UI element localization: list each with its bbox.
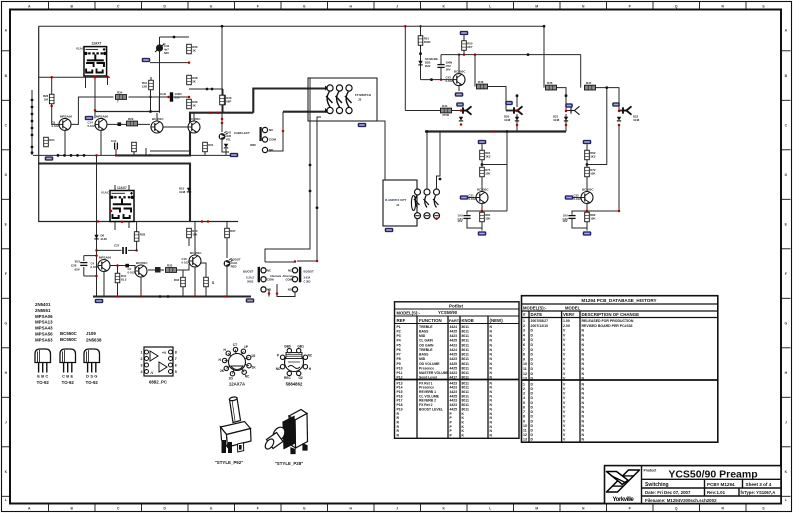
- node net GND1: [478, 232, 486, 236]
- junction: [167, 96, 170, 99]
- resistor R39: [187, 99, 198, 109]
- junction: [309, 190, 312, 193]
- svg-text:1K: 1K: [252, 365, 257, 369]
- svg-text:+V: +V: [162, 351, 167, 355]
- wire led dn: [226, 267, 228, 297]
- frame tick: [2, 248, 11, 250]
- relay switch: [433, 196, 439, 208]
- svg-text:1K2: 1K2: [485, 155, 491, 159]
- frame tick: [513, 2, 515, 10]
- svg-text:13: 13: [523, 377, 527, 381]
- wire send row A: [405, 110, 440, 112]
- svg-text:8011: 8011: [462, 376, 469, 380]
- connector J7 fx: [571, 106, 580, 114]
- svg-text:8011: 8011: [462, 329, 469, 333]
- svg-text:BD2: BD2: [425, 60, 431, 64]
- svg-text:8: 8: [523, 415, 525, 419]
- node net OD2: [142, 58, 150, 62]
- svg-text:L: L: [489, 506, 491, 510]
- junction: [167, 295, 170, 298]
- wire Q1 out: [71, 97, 113, 124]
- svg-text:10K: 10K: [192, 233, 198, 237]
- wire R51 col: [420, 26, 422, 79]
- frame tick: [2, 99, 11, 101]
- node net IN2: [565, 196, 573, 200]
- wire c28 leads2: [174, 96, 190, 98]
- wire buf1 base: [468, 197, 476, 199]
- capacitor C12: [111, 139, 117, 150]
- svg-text:TO-92: TO-92: [62, 380, 75, 385]
- junction: [206, 88, 209, 91]
- marker: [325, 86, 328, 91]
- resistor R62: [585, 150, 596, 160]
- resistor R81: [480, 212, 492, 222]
- wire buf2 riser: [587, 164, 607, 166]
- svg-text:2: 2: [523, 387, 525, 391]
- logo Yorkville: [607, 470, 640, 492]
- frame tick: [466, 2, 468, 10]
- frame tick: [781, 248, 791, 250]
- resistor R35: [204, 277, 209, 287]
- wire V1A pin stub: [85, 77, 87, 88]
- wire r20 stub: [133, 152, 135, 155]
- svg-text:10: 10: [523, 424, 527, 428]
- wire q7 em dn: [194, 275, 196, 297]
- table M1294 PCB_DATABASE_HISTORY: [522, 296, 718, 443]
- svg-text:4: 4: [523, 396, 525, 400]
- frame tick: [781, 198, 791, 200]
- wire fx1 up: [516, 96, 518, 107]
- frame tick: [652, 504, 654, 512]
- connector bar: [260, 127, 262, 141]
- wire c52 dn: [440, 67, 442, 79]
- wire r32 up: [182, 270, 184, 277]
- svg-text:YCS50/90 Preamp: YCS50/90 Preamp: [668, 469, 757, 481]
- junction: [211, 88, 214, 91]
- wire r35 dn: [205, 287, 207, 297]
- wire buf1 cap gnd: [467, 218, 482, 228]
- wire row89: [189, 88, 223, 90]
- wire j4 up1: [426, 132, 428, 190]
- resistor R28: [134, 232, 145, 242]
- wire net row tail: [96, 155, 98, 221]
- svg-text:C12: C12: [111, 139, 117, 143]
- svg-text:8011: 8011: [462, 353, 469, 357]
- svg-text:G: G: [303, 506, 306, 510]
- svg-text:VER#: VER#: [563, 312, 575, 317]
- transistor Q4: [188, 117, 201, 133]
- svg-text:MID: MID: [419, 334, 426, 338]
- title block: [605, 466, 782, 504]
- wire Q2 base col: [94, 77, 96, 118]
- junction: [31, 146, 34, 149]
- wire base row: [421, 79, 454, 81]
- transistor Q2: [88, 114, 109, 130]
- wire buf1 emit: [481, 204, 483, 212]
- pin J4-4: [415, 213, 421, 219]
- svg-text:12: 12: [523, 372, 527, 376]
- wire q6-q7 row: [148, 269, 164, 271]
- svg-text:Alternate: Alternate: [283, 274, 295, 278]
- svg-text:BC550C: BC550C: [189, 117, 201, 121]
- node net D1: [457, 103, 464, 107]
- svg-text:7: 7: [523, 348, 525, 352]
- wire q5 out: [111, 266, 136, 272]
- wire R46 down: [222, 105, 224, 113]
- marker: [325, 108, 328, 113]
- junction: [481, 210, 484, 213]
- svg-text:4425: 4425: [450, 366, 458, 370]
- svg-text:MPSA06: MPSA06: [96, 114, 108, 118]
- junction: [149, 154, 152, 157]
- svg-text:MPSA06: MPSA06: [99, 256, 111, 260]
- svg-text:1: 1: [523, 382, 525, 386]
- wire V1B pin stub: [114, 222, 116, 231]
- junction: [586, 210, 589, 213]
- svg-text:0-102: 0-102: [91, 265, 99, 269]
- transistor Q5: [91, 256, 112, 272]
- svg-text:P10: P10: [397, 366, 403, 370]
- svg-text:11: 11: [523, 429, 527, 433]
- svg-text:P9: P9: [397, 362, 401, 366]
- node net FSW: [358, 123, 366, 127]
- svg-text:3600: 3600: [250, 143, 256, 147]
- pin J3-2: [336, 85, 342, 91]
- svg-text:BC550C: BC550C: [454, 70, 466, 74]
- svg-text:16V: 16V: [446, 67, 451, 71]
- junction: [435, 217, 438, 220]
- svg-text:13: 13: [523, 438, 527, 442]
- wire r37 dn: [226, 238, 228, 258]
- wire fx2 row: [557, 88, 566, 111]
- junction: [110, 210, 113, 213]
- potentiometer STYLE_P92: [221, 396, 252, 447]
- connector J5 send: [463, 106, 472, 114]
- wire Q2-Q3 link: [107, 123, 150, 125]
- junction: [221, 25, 224, 28]
- junction: [194, 295, 197, 298]
- svg-text:P5: P5: [397, 343, 401, 347]
- frame tick: [187, 2, 189, 10]
- frame tick: [141, 504, 143, 512]
- svg-text:475R: 475R: [442, 113, 450, 117]
- junction: [83, 154, 86, 157]
- svg-text:L: L: [785, 498, 787, 502]
- junction: [106, 76, 109, 79]
- svg-text:8011: 8011: [462, 357, 469, 361]
- relay switch: [424, 196, 430, 208]
- diode D5 4148: [187, 188, 191, 192]
- svg-text:J: J: [396, 4, 398, 8]
- junction: [159, 295, 162, 298]
- table History text: [523, 298, 657, 442]
- resistor R24: [44, 137, 55, 147]
- junction: [149, 110, 152, 113]
- node net BUF2: [583, 140, 591, 144]
- svg-text:5: 5: [523, 338, 525, 342]
- diode D19: [459, 117, 463, 121]
- junction: [618, 124, 621, 127]
- wire q6 emitter: [140, 277, 142, 297]
- svg-text:B: B: [66, 374, 69, 379]
- svg-text:4423: 4423: [450, 399, 458, 403]
- svg-text:2007/12/10: 2007/12/10: [531, 324, 549, 328]
- junction: [282, 130, 285, 133]
- svg-text:12: 12: [523, 433, 527, 437]
- wire buf1 chain: [481, 144, 483, 192]
- svg-text:4: 4: [523, 333, 525, 337]
- frame tick: [373, 504, 375, 512]
- frame tick: [745, 2, 747, 10]
- svg-text:REVERB 2: REVERB 2: [419, 399, 436, 403]
- wire c26 loop l: [83, 256, 85, 261]
- wire fx1 row: [488, 87, 506, 111]
- svg-text:8011: 8011: [462, 343, 469, 347]
- svg-text:S: S: [90, 374, 93, 379]
- svg-text:6: 6: [175, 363, 177, 367]
- svg-text:12AX7: 12AX7: [92, 42, 102, 46]
- svg-text:MPSA56: MPSA56: [35, 332, 53, 337]
- svg-text:8011: 8011: [462, 371, 469, 375]
- connector NC/COM/ND: [262, 127, 274, 132]
- wire fsw B drop: [268, 112, 283, 151]
- transistor Q3: [151, 117, 164, 133]
- svg-text:560K: 560K: [424, 40, 432, 44]
- wire R26 col: [51, 77, 53, 106]
- svg-text:RED: RED: [231, 264, 237, 268]
- wire buf1 riser: [482, 164, 507, 166]
- wire r35 up: [201, 263, 206, 277]
- wire V1A pin stub3: [107, 76, 109, 85]
- svg-text:BASS: BASS: [419, 353, 429, 357]
- svg-text:8: 8: [523, 353, 525, 357]
- svg-text:GB1: GB1: [297, 344, 304, 348]
- wire R46 col: [222, 89, 224, 95]
- wire stub146: [145, 148, 147, 155]
- table Potlist: [395, 302, 520, 439]
- svg-text:M: M: [535, 4, 538, 8]
- frame tick: [781, 297, 791, 299]
- node net D2: [506, 101, 513, 105]
- svg-text:P7: P7: [397, 353, 401, 357]
- junction: [95, 275, 98, 278]
- wire fx3 row: [596, 88, 619, 111]
- frame tick: [48, 504, 50, 512]
- junction: [543, 25, 546, 28]
- svg-text:Switching: Switching: [645, 482, 669, 488]
- component coupling C15: [118, 122, 122, 126]
- junction: [70, 154, 73, 157]
- svg-text:P4: P4: [397, 339, 401, 343]
- wire plate row: [129, 96, 169, 98]
- pin J3-1: [327, 85, 333, 91]
- svg-text:C1B: C1B: [160, 92, 166, 96]
- frame tick: [2, 347, 11, 349]
- wire q7 emitter: [194, 267, 196, 275]
- frame tick: [781, 495, 791, 497]
- svg-text:1.00: 1.00: [563, 319, 570, 323]
- svg-text:63V: 63V: [164, 51, 169, 55]
- svg-text:G: G: [4, 321, 7, 325]
- svg-text:BOOST LEVEL: BOOST LEVEL: [419, 407, 443, 411]
- svg-text:CL GAIN: CL GAIN: [419, 339, 433, 343]
- svg-text:4425: 4425: [450, 329, 458, 333]
- junction: [516, 124, 519, 127]
- svg-text:Q: Q: [675, 4, 678, 8]
- svg-text:1G: 1G: [251, 354, 256, 358]
- frame tick: [781, 50, 791, 52]
- svg-text:C27: C27: [114, 244, 120, 248]
- svg-text:BC550C: BC550C: [477, 188, 489, 192]
- svg-text:Presence: Presence: [419, 366, 434, 370]
- resistor R33: [166, 264, 177, 273]
- connector J8 fx: [623, 106, 632, 114]
- svg-text:SCH4148L: SCH4148L: [425, 57, 439, 61]
- switch pole: [326, 92, 333, 108]
- svg-text:4148: 4148: [553, 118, 560, 122]
- svg-text:R32: R32: [174, 278, 180, 282]
- LED CH1 LED: [219, 131, 232, 142]
- junction: [316, 206, 319, 209]
- resistor R36: [187, 44, 198, 54]
- resistor R50: [462, 41, 473, 51]
- wire buf2 chain: [586, 144, 588, 192]
- svg-text:BC550C: BC550C: [136, 261, 148, 265]
- relay switch: [414, 196, 420, 208]
- svg-text:8011: 8011: [462, 381, 469, 385]
- svg-text:fsType: YS1067,A: fsType: YS1067,A: [741, 490, 776, 495]
- svg-text:4423: 4423: [450, 334, 458, 338]
- svg-text:2N5638: 2N5638: [86, 338, 102, 343]
- svg-text:11: 11: [523, 367, 527, 371]
- node net IN1: [460, 196, 468, 200]
- svg-text:T: T: [117, 100, 119, 104]
- svg-text:P15: P15: [397, 390, 403, 394]
- svg-text:COM: COM: [267, 278, 274, 282]
- wire r41 stub: [117, 266, 119, 274]
- junction: [31, 120, 34, 123]
- svg-text:C: C: [45, 374, 48, 379]
- svg-text:4417: 4417: [450, 376, 458, 380]
- svg-text:4: 4: [141, 370, 143, 374]
- wire net row: [33, 154, 230, 156]
- frame tick: [781, 149, 791, 151]
- frame tick: [48, 2, 50, 10]
- wire r28 col: [136, 222, 138, 232]
- svg-text:1M: 1M: [44, 97, 49, 101]
- svg-text:4423: 4423: [450, 343, 458, 347]
- connector FT.SWITCH J3: [308, 78, 377, 121]
- wire top rail: [39, 25, 544, 27]
- node net VB: [460, 31, 468, 35]
- frame tick: [559, 2, 561, 10]
- frame tick: [606, 2, 608, 10]
- junction: [116, 295, 119, 298]
- frame tick: [2, 495, 11, 497]
- wire boost stub2: [277, 284, 295, 297]
- svg-text:0-102: 0-102: [88, 124, 96, 128]
- svg-text:MPSA06: MPSA06: [60, 114, 72, 118]
- frame tick: [745, 504, 747, 512]
- wire cathode heavy: [117, 113, 190, 156]
- junction: [188, 96, 191, 99]
- diode D4: [224, 144, 228, 148]
- node net: [85, 116, 93, 120]
- svg-text:MPSA13: MPSA13: [35, 320, 53, 325]
- svg-text:J3: J3: [358, 98, 362, 102]
- frame tick: [280, 504, 282, 512]
- svg-text:MODEL(S):-: MODEL(S):-: [397, 311, 421, 316]
- svg-text:J: J: [5, 420, 7, 424]
- diode D20: [515, 117, 519, 121]
- junction: [31, 127, 34, 130]
- resistor R32: [181, 277, 186, 287]
- wire buf2 gnd stub: [586, 228, 588, 231]
- svg-text:TREBLE: TREBLE: [419, 325, 433, 329]
- junction: [419, 52, 422, 55]
- frame tick: [781, 396, 791, 398]
- transistor Q6: [128, 261, 149, 277]
- svg-text:5: 5: [175, 370, 177, 374]
- svg-text:BOOST: BOOST: [304, 269, 315, 273]
- frame tick: [187, 504, 189, 512]
- resistor R26: [49, 94, 54, 104]
- wire q7 col: [194, 222, 196, 256]
- svg-text:F: F: [257, 4, 259, 8]
- wire send col A: [404, 26, 406, 110]
- svg-text:M: M: [535, 506, 538, 510]
- wire bias link: [150, 62, 189, 64]
- junction: [224, 295, 227, 298]
- label transistor types: [35, 302, 102, 343]
- svg-text:Rev:1.01: Rev:1.01: [707, 490, 726, 495]
- svg-text:KNOB: KNOB: [462, 318, 474, 323]
- svg-text:V1AC: V1AC: [101, 191, 110, 195]
- frame tick: [141, 2, 143, 10]
- svg-text:R28: R28: [140, 233, 146, 237]
- svg-text:F: F: [5, 272, 7, 276]
- switch pole: [336, 92, 343, 108]
- resistor R48: [477, 80, 488, 89]
- svg-text:8011: 8011: [462, 399, 469, 403]
- svg-text:R45: R45: [547, 81, 553, 85]
- wire c52 up: [440, 55, 442, 65]
- svg-text:8011: 8011: [462, 348, 469, 352]
- svg-text:NO: NO: [276, 367, 281, 371]
- svg-text:BASS: BASS: [419, 329, 429, 333]
- node net D4: [613, 103, 620, 107]
- svg-text:COM: COM: [285, 278, 292, 282]
- node net GND2: [583, 232, 591, 236]
- svg-text:CAB8 LECT: CAB8 LECT: [234, 131, 250, 135]
- svg-text:4148: 4148: [504, 118, 511, 122]
- junction: [173, 36, 176, 39]
- svg-text:2K: 2K: [220, 369, 225, 373]
- svg-text:F: F: [785, 272, 787, 276]
- resistor R34: [116, 91, 127, 104]
- junction: [135, 249, 138, 252]
- wire Q4 collector: [193, 113, 195, 121]
- svg-text:8011: 8011: [462, 390, 469, 394]
- wire led col2: [221, 105, 223, 132]
- wire c27 row2: [128, 249, 137, 251]
- svg-text:8011: 8011: [462, 362, 469, 366]
- junction: [94, 76, 97, 79]
- junction: [565, 110, 568, 113]
- svg-text:16V: 16V: [563, 219, 568, 223]
- svg-text:FUNCTION: FUNCTION: [419, 318, 442, 323]
- svg-text:2G: 2G: [229, 377, 234, 381]
